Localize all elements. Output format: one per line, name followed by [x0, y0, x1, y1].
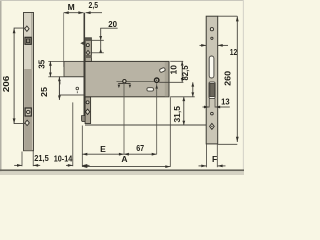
dimension 25 line with arrows: [58, 77, 61, 100]
deadbolt thrown: [64, 61, 85, 76]
svg-text:M: M: [68, 2, 75, 12]
lock body right shade: [165, 62, 169, 96]
svg-text:A: A: [121, 154, 127, 164]
key axis line: [117, 81, 154, 83]
dimension 260 arrow down: [236, 137, 239, 142]
dimension A line: [82, 165, 170, 168]
dimension 21,5 extension right: [32, 151, 34, 166]
screw hole diamond bottom: [25, 120, 29, 125]
dimension 260 vertical line: [236, 16, 238, 142]
latch edge mark: [59, 82, 60, 85]
svg-text:2,5: 2,5: [89, 0, 99, 10]
cylinder extension stem: [156, 83, 158, 154]
body right extension line down: [169, 97, 171, 167]
dimension 20 arrow down: [99, 36, 102, 40]
left faceplate inner edge line: [31, 13, 33, 69]
faceplate extension line down: [81, 126, 83, 167]
lower block diamond: [85, 109, 89, 114]
right faceplate screw hole top: [210, 28, 213, 31]
dimension 2,5 line with arrow: [86, 11, 102, 14]
dimension E and 67 line: [82, 153, 156, 156]
central faceplate edge line: [84, 13, 86, 118]
right faceplate screw hole bottom: [211, 112, 214, 115]
dimension 31,5 line with arrows: [182, 97, 185, 125]
svg-text:E: E: [100, 144, 106, 154]
svg-text:13: 13: [221, 97, 230, 107]
svg-text:67: 67: [136, 143, 144, 153]
dimension M line with arrows: [64, 11, 84, 14]
dimension M extension line: [63, 13, 65, 67]
lower hook tab: [82, 116, 86, 122]
square fixing detail bottom: [25, 108, 31, 116]
dimension 260 jog bottom: [218, 143, 238, 145]
dimension 20 underline: [100, 27, 117, 29]
bottom rule: [0, 169, 244, 171]
fixing screw arrow on faceplate: [80, 42, 83, 45]
right faceplate latch slot: [209, 56, 214, 78]
dimension 35 extension bottom: [48, 76, 59, 78]
top block screw: [86, 44, 89, 47]
bottom alignment line: [85, 124, 210, 126]
dimension 260 jog top: [218, 15, 238, 17]
cylinder ring: [155, 78, 159, 82]
body bottom extension line: [170, 96, 195, 98]
body slot lower: [147, 88, 154, 91]
cylinder axis tick right: [159, 81, 183, 83]
dimension 260 arrow up: [236, 16, 239, 21]
dimension 20 arrow up: [99, 49, 102, 53]
door sheet line: [72, 102, 74, 166]
dimension 206 arrow down: [13, 118, 16, 123]
svg-text:31,5: 31,5: [172, 106, 182, 123]
lower block screw: [86, 101, 89, 104]
body top extension line: [170, 60, 183, 62]
lock body: [85, 61, 169, 96]
right faceplate front view: [206, 16, 218, 144]
slot extension lines: [208, 99, 210, 108]
dimension F line with arrows: [199, 165, 226, 168]
dimension 20 tick upper: [86, 39, 104, 41]
dimension 10 line with arrows: [181, 61, 184, 82]
svg-text:35: 35: [36, 59, 46, 68]
svg-text:260: 260: [223, 71, 233, 86]
svg-text:21,5: 21,5: [34, 153, 49, 163]
dimension 13 line with arrows: [203, 106, 230, 109]
svg-text:82,5: 82,5: [180, 65, 190, 80]
dimension 35 extension top: [48, 60, 64, 62]
svg-text:10-14: 10-14: [54, 153, 73, 163]
dimension 21,5 line with arrows: [14, 164, 40, 167]
right faceplate small hole: [211, 37, 213, 39]
latch tick: [76, 91, 78, 93]
screw hole diamond top: [25, 26, 29, 31]
keyhole circle: [123, 80, 126, 83]
keyhole extension stem: [123, 83, 125, 154]
top block diamond: [86, 50, 90, 54]
dimension F extension right: [216, 144, 218, 167]
keyhole crossbar: [118, 82, 130, 84]
latch plate: [59, 77, 85, 95]
top page border: [0, 0, 244, 1]
dimension 35 line with arrows: [49, 61, 52, 76]
svg-text:12: 12: [230, 47, 238, 57]
bolt seen in window: [210, 83, 215, 96]
lower fixing block: [85, 97, 91, 124]
right faceplate diamond hole: [210, 123, 215, 129]
square fixing detail top: [25, 37, 31, 44]
svg-text:10: 10: [169, 65, 179, 75]
cylinder up arrow: [155, 85, 158, 89]
dimension 20 vertical line: [100, 28, 102, 53]
dimension 21,5 extension left: [21, 152, 23, 167]
left page border: [0, 0, 2, 175]
dimension F extension left: [206, 144, 208, 167]
svg-text:25: 25: [39, 87, 49, 97]
bottom band: [0, 171, 244, 175]
svg-text:20: 20: [108, 19, 117, 29]
dimension 10-14 line with arrows: [66, 164, 90, 167]
dimension 206 leader top: [14, 28, 25, 124]
body slot upper: [159, 67, 166, 72]
dimension 206 arrow up: [13, 28, 16, 33]
top fixing block: [85, 38, 91, 62]
left faceplate side view body: [24, 13, 34, 151]
svg-text:F: F: [212, 154, 217, 164]
dimension 20 tick lower: [91, 52, 104, 54]
dimension 82,5 line with arrows: [191, 82, 194, 96]
left faceplate dark lower section: [24, 69, 32, 150]
svg-text:206: 206: [1, 75, 11, 92]
dimension 12 line with arrows: [200, 44, 229, 47]
keyhole left down arrow: [118, 85, 121, 89]
right page border: [243, 0, 244, 175]
keyhole right down arrow: [129, 85, 132, 89]
right faceplate bolt window: [209, 82, 215, 99]
latch screw: [76, 87, 79, 90]
